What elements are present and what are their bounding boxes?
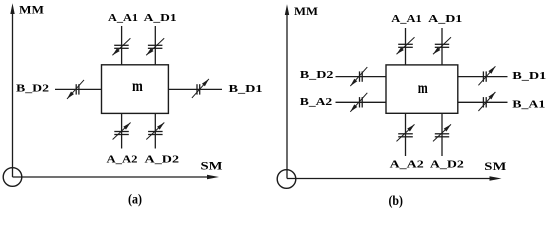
svg-text:SM: SM xyxy=(201,159,223,173)
wire A_D1 (b) xyxy=(441,28,443,65)
wire B_D1 (a) xyxy=(168,88,222,90)
wire A_D2 (b) xyxy=(441,113,443,156)
svg-text:A_D1: A_D1 xyxy=(144,12,177,24)
capacitor A_A2 (b) xyxy=(397,124,415,141)
capacitor A_A2 (a) xyxy=(113,123,131,140)
wire A_D1 (a) xyxy=(154,26,156,65)
origin circle (a) xyxy=(3,168,22,187)
svg-text:B_D1: B_D1 xyxy=(512,70,546,82)
capacitor B_A1 (b) xyxy=(478,92,495,111)
svg-text:B_A1: B_A1 xyxy=(512,98,545,110)
capacitor B_D1 (b) xyxy=(478,66,495,85)
svg-text:A_A1: A_A1 xyxy=(108,12,138,24)
capacitor B_A2 (b) xyxy=(350,93,367,112)
svg-text:B_D1: B_D1 xyxy=(229,83,263,95)
wire A_A2 (a) xyxy=(121,113,123,148)
svg-text:MM: MM xyxy=(294,4,318,18)
wire A_A1 (a) xyxy=(121,26,123,65)
svg-text:A_D2: A_D2 xyxy=(430,158,465,170)
svg-text:B_A2: B_A2 xyxy=(300,96,333,108)
wire B_D2 (b) xyxy=(336,76,387,78)
box m (a) xyxy=(102,65,169,114)
wire B_A1 (b) xyxy=(458,101,508,103)
svg-text:B_D2: B_D2 xyxy=(16,82,50,94)
svg-text:(a): (a) xyxy=(128,193,142,208)
wire A_A2 (b) xyxy=(405,113,407,156)
svg-text:(b): (b) xyxy=(388,194,403,209)
capacitor A_A1 (b) xyxy=(397,37,415,54)
svg-text:A_A2: A_A2 xyxy=(390,158,425,170)
svg-text:B_D2: B_D2 xyxy=(300,69,334,81)
svg-text:MM: MM xyxy=(19,2,44,16)
capacitor A_D2 (b) xyxy=(433,124,451,141)
wire B_D2 (a) xyxy=(55,88,102,90)
capacitor B_D2 (a) xyxy=(67,80,84,99)
MM axis arrowhead (b) xyxy=(285,4,289,15)
wire A_A1 (b) xyxy=(405,28,407,65)
svg-text:A_A2: A_A2 xyxy=(107,154,139,166)
origin circle (b) xyxy=(277,170,296,189)
svg-text:m: m xyxy=(132,78,143,95)
MM axis line (a) xyxy=(12,13,14,177)
svg-text:A_D2: A_D2 xyxy=(145,154,180,166)
wire A_D2 (a) xyxy=(154,113,156,148)
wire B_D1 (b) xyxy=(458,76,508,78)
svg-text:A_A1: A_A1 xyxy=(391,13,422,25)
capacitor A_D1 (a) xyxy=(146,38,164,55)
wire B_A2 (b) xyxy=(336,101,387,103)
capacitor A_D2 (a) xyxy=(146,123,164,140)
box m (b) xyxy=(386,65,458,113)
capacitor B_D1 (a) xyxy=(192,79,209,98)
MM axis line (b) xyxy=(286,14,288,179)
svg-text:A_D1: A_D1 xyxy=(428,13,462,25)
svg-text:SM: SM xyxy=(484,159,506,173)
capacitor A_D1 (b) xyxy=(433,37,451,54)
SM axis arrowhead (a) xyxy=(207,175,219,180)
SM axis line (b) xyxy=(287,178,491,180)
svg-text:m: m xyxy=(418,80,429,97)
capacitor A_A1 (a) xyxy=(112,38,130,55)
capacitor B_D2 (b) xyxy=(350,67,367,86)
SM axis arrowhead (b) xyxy=(490,176,502,181)
SM axis line (a) xyxy=(13,176,209,178)
MM axis arrowhead (a) xyxy=(10,3,14,14)
